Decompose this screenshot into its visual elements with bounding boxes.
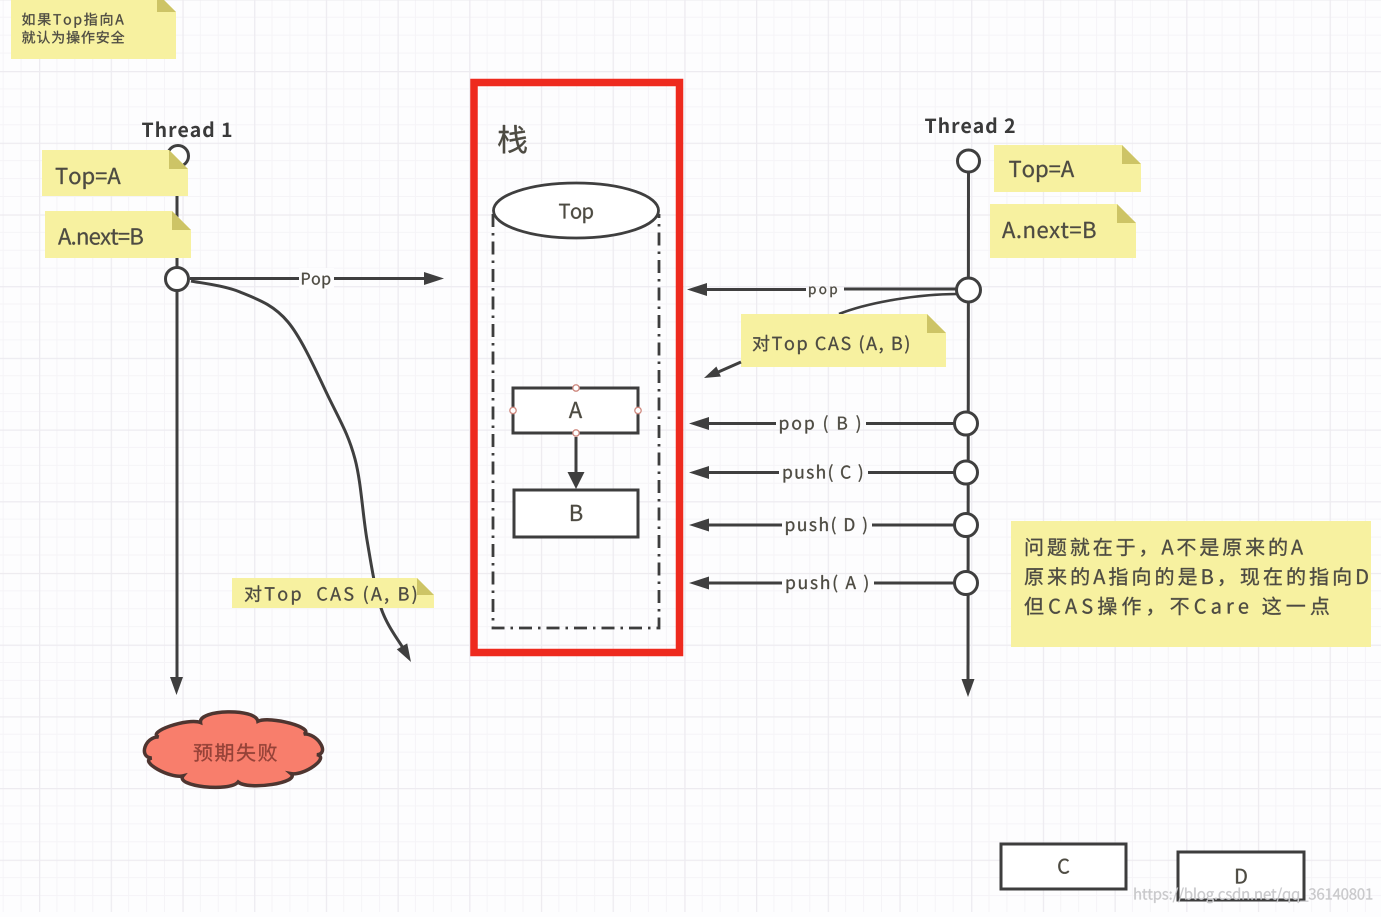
Pop arrow (thread1 to stack) [190,268,444,289]
sticky note: A.next=B (left) [45,211,191,258]
push( D ) arrow row [689,514,978,537]
big note: 问题就在于... [1011,521,1371,647]
pop ( B ) arrow row [689,412,978,435]
thread 2 node circle (pop) [957,278,981,302]
pop arrow (thread2 row 1) [687,283,956,297]
thread 1 timeline [170,160,183,695]
thread 2 timeline [962,161,975,697]
stack dash-dot container [493,214,659,628]
栈 label [498,125,527,154]
thread 1 start circle [168,146,189,167]
Thread 2 title [925,117,1015,133]
Top ellipse [494,183,659,238]
watermark [1134,888,1372,904]
push( C ) arrow row [689,461,978,484]
box C [1001,844,1126,889]
arrow from CAS note down-left [704,362,741,378]
sticky note: 对Top CAS (A, B) (right) [741,314,946,367]
red stack frame [474,83,680,653]
connection dots on box A [510,385,641,436]
sticky note: Top=A (left) [42,150,188,196]
sticky note: 对Top CAS (A, B) (left) [232,578,434,608]
sticky note: 如果Top指向A / 就认为操作安全 [11,0,176,59]
thread 1 node circle [166,268,189,291]
thread 2 start circle [958,150,980,172]
sticky note: Top=A (right) [994,145,1141,192]
sticky note: A.next=B (right) [990,204,1136,258]
push( A ) arrow row [689,572,978,595]
curve thread1 to CAS fail arrow [191,281,411,662]
curve node to CAS note [839,294,957,314]
Thread 1 title [142,121,231,137]
box D [1178,852,1304,900]
cloud 预期失败 [144,712,322,787]
arrow A to B [568,437,585,489]
box B [514,490,638,537]
box A [513,388,638,433]
